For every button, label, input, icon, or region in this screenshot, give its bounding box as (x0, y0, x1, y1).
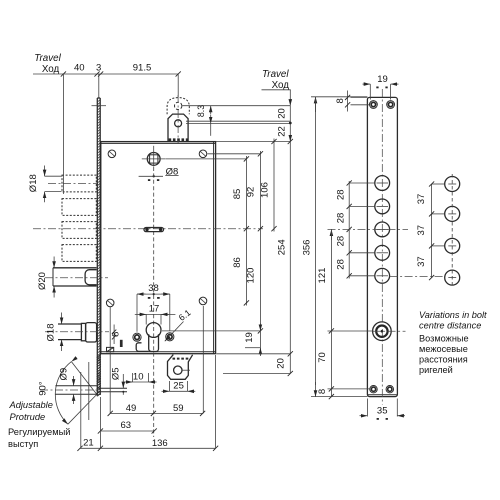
strip section hatch below body (97, 355, 101, 396)
bolt hole 2 cross tick (377, 205, 389, 207)
Ø5 dimension (122, 374, 124, 388)
dimension line 21/136 (80, 447, 216, 449)
svg-text:85: 85 (232, 189, 243, 200)
faceplate strip (edge view) (96, 98, 98, 395)
faceplate vertical centerline (381, 89, 383, 405)
bolt hole 3 cross tick (377, 228, 389, 230)
extension short 19-bottom (245, 347, 260, 349)
top screw left (370, 101, 378, 109)
dimension 8 (plate top) (347, 91, 349, 112)
top dimension line 40-3-91.5 (33, 73, 178, 75)
bolt Ø20 centerline (45, 277, 108, 279)
variation tick 1 (448, 183, 456, 185)
svg-text:межосевые: межосевые (419, 344, 468, 354)
dimension 35 (plate width) (366, 399, 368, 417)
dimension line 37 (431, 184, 433, 278)
bottom screw left (370, 386, 377, 393)
svg-text:Adjustable: Adjustable (9, 400, 53, 410)
extension corner-hole-right down (202, 306, 204, 413)
bolt Ø18 head (86, 323, 97, 342)
follower crosshair (142, 158, 166, 160)
extension variation y=184 (432, 183, 445, 185)
solid bracket (latch) (168, 114, 188, 142)
svg-text:Travel: Travel (262, 69, 289, 80)
bolt hole 2 front view (375, 199, 390, 214)
bolt Ø20 head (rounded) (85, 270, 97, 285)
extension cylinder-center right (162, 330, 260, 332)
extension pin-tip down (80, 372, 82, 448)
dimension 10 (132, 373, 134, 382)
svg-text:3: 3 (96, 63, 101, 74)
svg-text:8: 8 (111, 332, 122, 337)
dimension line 254/20 (289, 142, 291, 374)
hidden bolt 3 (dashed, retracted) (62, 222, 96, 239)
extension bracket-bottom right (223, 373, 290, 375)
svg-text:Ø18: Ø18 (46, 324, 57, 342)
svg-text:86: 86 (232, 257, 243, 268)
svg-text:19: 19 (244, 332, 255, 343)
extension bottom screws left (328, 388, 370, 390)
bolt hole 5 cross tick (377, 275, 389, 277)
svg-text:8: 8 (335, 98, 346, 103)
extension hole y=183 (349, 182, 375, 184)
svg-text:136: 136 (152, 438, 168, 449)
bolt Ø18 collar (81, 323, 85, 340)
dimension 19 (top screws) (369, 84, 371, 99)
dimension line 356 (315, 97, 317, 112)
dimension 38 (screw spacing) (136, 294, 138, 332)
svg-text:40: 40 (74, 63, 85, 74)
svg-text:Регулируемый: Регулируемый (8, 427, 70, 437)
svg-text:70: 70 (317, 352, 328, 363)
svg-text:90°: 90° (37, 381, 48, 396)
phantom bracket hole (dashed) (175, 102, 182, 109)
pin centerline (40, 389, 99, 391)
extension line travel-left (62, 74, 64, 194)
svg-text:8.3: 8.3 (196, 105, 206, 117)
bolt 1 centerline (48, 182, 97, 184)
cylinder front view (373, 322, 392, 341)
corner hole bottom-right (199, 297, 207, 305)
travel dimension line 20-22 (289, 90, 291, 106)
variation tick 2 (448, 213, 456, 215)
follower Ø8 dimension line (139, 175, 163, 177)
leader 6.1 (165, 322, 184, 342)
dimension 17 (cylinder width) (145, 314, 147, 324)
dimension 25 (168, 381, 170, 391)
bolt hole 4 cross tick (377, 252, 389, 254)
extension line from phantom hole (92, 105, 107, 107)
extension faint mid (88, 362, 90, 420)
svg-text:59: 59 (173, 403, 184, 414)
svg-text:37: 37 (416, 194, 427, 205)
svg-text:37: 37 (416, 225, 427, 236)
svg-text:выступ: выступ (8, 439, 38, 449)
tab hole (174, 366, 182, 374)
variation tick 4 (448, 277, 456, 279)
svg-text:356: 356 (301, 240, 312, 256)
faceplate front view outline (367, 97, 397, 396)
Ø20 dimension arrows (53, 257, 55, 268)
corner hole top-right (199, 150, 207, 158)
extension hole y=252.8 (349, 252, 375, 254)
vertical dashed centerline through follower and cylinder (153, 167, 155, 437)
corner hole bottom-left (106, 299, 114, 307)
hidden bolt 4 (dashed, retracted) (62, 245, 96, 262)
svg-text:25: 25 (173, 381, 184, 392)
Ø18 round bolt dimension arrows (61, 313, 63, 325)
Ø9 dimension arrows (73, 376, 75, 386)
top screw right (387, 101, 395, 109)
svg-text:19: 19 (377, 74, 388, 85)
faceplate inner bottom line (368, 394, 397, 396)
phantom bracket (dashed, extended) (167, 98, 189, 115)
dimension line 63 (100, 430, 154, 432)
variation bolt position 1 (445, 177, 460, 192)
extension body-top to right (216, 141, 290, 143)
svg-text:Ø18: Ø18 (28, 174, 39, 192)
bolt Ø18 round (key bolt) shaft (58, 323, 81, 325)
centerline through hole 3 (328, 228, 409, 230)
cylinder screw right (166, 333, 174, 341)
extension variation y=213.9 (432, 213, 445, 215)
bolt hole 1 cross tick (377, 182, 389, 184)
svg-text:37: 37 (416, 256, 427, 267)
svg-text:расстояния: расстояния (419, 355, 468, 365)
bracket centerline (177, 95, 179, 143)
svg-text:Ø20: Ø20 (37, 272, 48, 290)
mounting tab below body (168, 355, 193, 380)
corner hole top-left (108, 150, 116, 158)
centerline hole5 to variation (349, 275, 375, 277)
extension follower (166, 158, 246, 160)
bolt Ø20 body (53, 267, 97, 269)
bolt hole 4 front view (375, 245, 390, 260)
svg-text:91.5: 91.5 (133, 63, 152, 74)
svg-text:28: 28 (335, 213, 346, 224)
svg-text:28: 28 (335, 259, 346, 270)
svg-text:106: 106 (260, 182, 271, 198)
svg-text:Ход: Ход (42, 64, 60, 75)
variation bolt position 2 (445, 206, 460, 221)
horizontal centerline of body (33, 228, 263, 230)
svg-text:ригелей: ригелей (419, 365, 453, 375)
svg-text:Protrude: Protrude (10, 412, 46, 422)
svg-text:120: 120 (246, 268, 257, 284)
lock body inner bottom edge (101, 351, 216, 353)
bottom screw right (386, 386, 393, 393)
extension plate bottom left (311, 396, 367, 398)
tab hatch (173, 358, 190, 360)
dimension line 92/120/19 (259, 151, 261, 356)
extension faceplate-top-left (311, 96, 367, 98)
Ø18 dimension (top bolts) (45, 175, 62, 177)
svg-text:20: 20 (275, 358, 286, 369)
extension variation y=245.9 (432, 245, 445, 247)
dimension line 106 (273, 139, 275, 232)
slot at body center (144, 228, 164, 232)
faceplate strip hatch (97, 100, 100, 397)
svg-text:28: 28 (335, 236, 346, 247)
extension line bracket-center-top (177, 74, 179, 97)
svg-text:Ход: Ход (272, 80, 290, 91)
extension lines from latch hole (186, 120, 290, 122)
extension body-bottom right (217, 353, 291, 355)
svg-text:8: 8 (317, 389, 328, 394)
dimension line 28 spacing (348, 181, 350, 279)
svg-text:Возможные: Возможные (419, 334, 469, 344)
svg-text:35: 35 (377, 405, 388, 416)
svg-text:17: 17 (149, 304, 160, 315)
extension body-right down (215, 355, 217, 448)
extension cylinder front left (328, 330, 373, 332)
extension hole y=206.4 (349, 205, 375, 207)
svg-text:10: 10 (133, 371, 144, 382)
hidden bolt 2 (dashed, retracted) (62, 199, 96, 216)
svg-text:49: 49 (126, 403, 137, 414)
svg-text:21: 21 (83, 438, 94, 449)
lock body inner top edge (101, 142, 216, 144)
svg-text:Ø9: Ø9 (58, 368, 69, 381)
hidden bolt 1 (dashed, retracted) (62, 175, 96, 192)
small spring detail in body corner (107, 347, 114, 351)
extension corner-circles (208, 153, 261, 155)
cylinder keyhole (euro profile) (146, 323, 161, 338)
svg-text:22: 22 (277, 126, 288, 137)
follower circle (147, 153, 160, 166)
solid bracket hole (175, 120, 182, 127)
svg-text:38: 38 (148, 283, 159, 294)
svg-text:92: 92 (246, 187, 257, 198)
retainer slot in body bottom (120, 340, 123, 347)
svg-text:28: 28 (335, 189, 346, 200)
90 degree swing arc (55, 362, 71, 425)
follower square (150, 155, 158, 163)
variation column dashed centerline (451, 174, 453, 288)
svg-text:Travel: Travel (34, 53, 61, 64)
extension strip down (99, 397, 101, 448)
travel leader underline (262, 89, 291, 91)
cylinder screw left (133, 333, 141, 341)
extension corner-hole-left down (109, 307, 111, 413)
dimension line 85/86 (245, 156, 247, 306)
svg-text:20: 20 (277, 108, 288, 119)
svg-text:Ø5: Ø5 (111, 367, 122, 380)
svg-text:121: 121 (317, 268, 328, 284)
svg-text:Variations in bolt: Variations in bolt (419, 310, 487, 320)
adjustable pin Ø9 (55, 385, 96, 387)
svg-text:centre distance: centre distance (419, 320, 481, 330)
svg-text:254: 254 (277, 239, 288, 255)
lock body outline (101, 142, 216, 354)
bolt hole 3 front view (375, 222, 390, 237)
dimension 8.3 (210, 106, 212, 115)
extension line strip-top (98, 74, 100, 98)
bracket hatch (169, 138, 188, 141)
variation tick 3 (448, 245, 456, 247)
svg-text:63: 63 (121, 420, 132, 431)
dimension 8 (bolt to screw centers) (113, 325, 115, 345)
variation bolt position 4 (445, 270, 460, 285)
lock body inner right edge (213, 142, 215, 354)
bolt hole 1 front view (375, 176, 390, 191)
dimension line 121/70/8 (330, 229, 332, 240)
bolt hole 5 front view (375, 268, 390, 283)
variation bolt position 3 (445, 238, 460, 253)
pin inner shaft Ø5 (inside body) (98, 387, 128, 389)
bolt Ø18 centerline (45, 331, 109, 333)
dimension line 49/59 (110, 412, 202, 414)
lever hook at cylinder (136, 343, 149, 352)
